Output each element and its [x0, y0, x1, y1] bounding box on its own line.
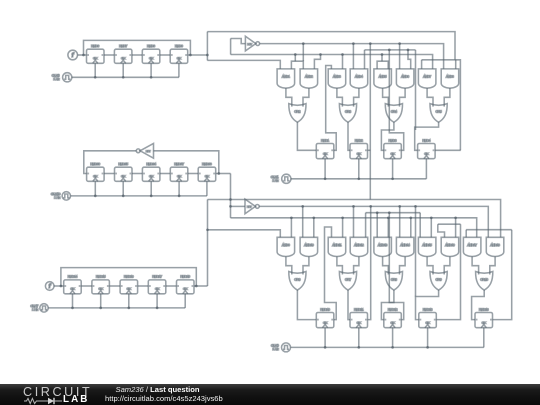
wire REG12 Q riser	[389, 213, 403, 320]
AND gate AND18	[486, 237, 504, 256]
AND gate AND2	[300, 69, 318, 88]
svg-text:REG35: REG35	[118, 162, 128, 166]
junction on B2	[352, 42, 355, 45]
wire REG1 Q up to AND3 left input	[326, 66, 337, 151]
wire clock stub chain D	[72, 294, 74, 308]
svg-text:AND6: AND6	[401, 75, 409, 79]
wire AND14 left input riser	[399, 206, 401, 237]
wire clock stub row 2	[324, 328, 326, 348]
flip-flop REG15	[92, 275, 110, 294]
wire chain-D link	[166, 285, 177, 287]
wire vertical at chain-A output	[206, 32, 208, 61]
wire clock stub chain D	[184, 294, 186, 308]
wire NOT2 input	[231, 205, 246, 207]
AND gate AND13	[374, 237, 392, 256]
wire CLK1 bus	[291, 178, 427, 180]
wire bus B4	[365, 49, 416, 51]
inverter NOT2	[245, 199, 259, 214]
wire OR8 output to REG12 D	[381, 290, 394, 320]
AND gate AND11	[328, 237, 346, 256]
OR gate OR5	[430, 104, 447, 123]
wire E-B2 into AND12 right input	[365, 213, 367, 238]
svg-text:AND7: AND7	[423, 75, 431, 79]
AND gate AND14	[396, 237, 414, 256]
wire chain-C link	[160, 173, 170, 175]
svg-text:REG38: REG38	[202, 162, 212, 166]
flip-flop REG6	[87, 44, 105, 63]
wire REG2 Q long vertical	[369, 44, 371, 200]
flip-flop REG35	[115, 162, 133, 181]
svg-text:REG17: REG17	[152, 275, 162, 279]
OR gate OR3	[339, 104, 356, 123]
junction REG11 Q on E-B1	[369, 205, 372, 208]
wire OR10 output to REG18 D	[472, 290, 485, 320]
svg-text:REG12: REG12	[388, 307, 398, 311]
wire long vertical to REG13 D jog	[415, 206, 417, 296]
svg-text:OR3: OR3	[345, 110, 351, 114]
junction clock bus	[94, 76, 97, 79]
wire AND1 output to OR2 input	[286, 88, 292, 107]
wire AND10 output to OR6	[303, 257, 309, 275]
wire probe to REG6 D input	[78, 54, 87, 56]
wire bus E-B5 to AND9 left input	[208, 230, 281, 238]
junction on E-B2	[376, 211, 379, 214]
AND gate AND16	[441, 237, 459, 256]
junction at REG6 D	[82, 54, 85, 57]
wire AND6 output to OR4 input	[400, 88, 406, 107]
AND gate AND15	[418, 237, 436, 256]
flip-flop REG18	[475, 307, 493, 327]
wire REG9 Q output node	[188, 54, 208, 56]
AND gate AND10	[300, 237, 318, 256]
wire AND12 left input riser	[353, 206, 355, 237]
wire REG11 Q riser	[368, 206, 371, 319]
junction CLK9 bus	[426, 346, 429, 349]
wire REG38 Q output	[216, 173, 231, 175]
wire NOT1 input loop vertical	[230, 39, 232, 55]
OR gate OR7	[339, 272, 356, 291]
flip-flop REG14	[64, 275, 81, 294]
wire AND10 left input riser	[302, 206, 304, 237]
wire OR2 output to REG1 D	[297, 122, 316, 150]
svg-text:REG3: REG3	[389, 138, 397, 142]
CircuitLab logo	[23, 385, 92, 399]
wire CLK7 bus	[48, 307, 185, 309]
svg-text:REG1: REG1	[321, 138, 329, 142]
junction on B4	[407, 49, 410, 52]
OR gate OR9	[430, 272, 447, 291]
wire AND14 output to OR8	[400, 257, 406, 275]
wire AND16 output to OR9	[444, 257, 450, 275]
wire CLK10 bus	[71, 195, 207, 197]
wire chain-C feedback to NOT13 input	[154, 151, 219, 174]
svg-text:AND10: AND10	[304, 243, 314, 247]
wire E-B4 into AND16 left input	[438, 224, 445, 237]
inverter NOT13	[136, 143, 153, 158]
wire clock stub chain D	[100, 294, 102, 308]
wire REG7 Q to REG8 D	[132, 54, 142, 56]
wire AND1.R - AND2.L inner segment	[291, 61, 303, 69]
clock source CLK8	[52, 73, 72, 82]
flip-flop REG17	[148, 275, 166, 294]
wire bus E-B3 to AND17 right input	[231, 218, 477, 238]
svg-text:AND18: AND18	[490, 243, 500, 247]
flip-flop REG37	[170, 162, 188, 181]
svg-text:OR2: OR2	[294, 110, 300, 114]
svg-text:REG8: REG8	[147, 44, 155, 48]
wire REG4 Q stub	[435, 149, 461, 151]
junction on E-B1	[301, 205, 304, 208]
svg-text:OR6: OR6	[294, 278, 300, 282]
wire REG13 Q riser	[436, 224, 460, 319]
svg-text:AND8: AND8	[446, 75, 454, 79]
flip-flop REG1	[316, 138, 334, 158]
svg-text:AND11: AND11	[332, 243, 341, 247]
svg-text:AND16: AND16	[445, 243, 455, 247]
junction on B3	[294, 53, 297, 56]
flip-flop REG11	[350, 307, 368, 327]
wire AND2 output to OR2 input	[303, 88, 309, 107]
OR gate OR10	[476, 272, 493, 291]
svg-text:NOT: NOT	[247, 44, 252, 46]
flip-flop REG2	[350, 138, 368, 158]
wire REG18 Q riser	[493, 230, 512, 320]
wire clock stub chain C	[206, 181, 208, 196]
junction on E-B3	[409, 216, 412, 219]
wire CLK8 bus	[72, 76, 179, 78]
junction CLK7 bus	[71, 307, 74, 310]
junction CLK10 bus	[94, 195, 97, 198]
wire AND17 output to OR10	[472, 257, 479, 275]
junction on E-B0	[229, 198, 232, 201]
svg-text:REG4: REG4	[422, 138, 430, 142]
wire NOT1 input	[231, 39, 246, 44]
wire B4 drop toward REG4	[415, 50, 417, 130]
wire AND7 left input riser	[421, 60, 423, 69]
svg-text:OR5: OR5	[436, 110, 442, 114]
wire AND12 output to OR7	[354, 257, 359, 275]
wire AND9 output to OR6	[286, 257, 292, 275]
wire clock stub REG6	[94, 63, 96, 77]
junction CLK1 bus	[324, 177, 327, 180]
svg-text:REG14: REG14	[68, 275, 78, 279]
svg-text:AND15: AND15	[422, 243, 432, 247]
junction on B2	[398, 42, 401, 45]
wire clock stub chain C	[150, 181, 152, 196]
wire clock stub REG4	[425, 159, 427, 179]
svg-text:f: f	[49, 283, 52, 290]
clock source CLK7	[30, 304, 48, 312]
wire E-B6 into AND17 left input	[465, 230, 467, 238]
wire OR9 output to REG13 D	[416, 290, 439, 320]
svg-text:NOT: NOT	[146, 151, 151, 153]
wire AND11 output to OR7	[337, 257, 343, 275]
wire clock stub row 2	[427, 328, 429, 348]
wire bus B2 (NOT1 output) to AND8 left input	[260, 44, 444, 69]
svg-text:AND13: AND13	[378, 243, 388, 247]
wire chain-D link	[109, 285, 120, 287]
wire OR5 output to REG4 D	[415, 122, 439, 150]
svg-text:1 Hz: 1 Hz	[32, 308, 39, 312]
junction on B2	[302, 42, 305, 45]
wire into AND8 right input	[455, 60, 457, 69]
wire clock stub row 2	[483, 328, 485, 348]
svg-text:REG37: REG37	[174, 162, 184, 166]
AND gate AND9	[277, 237, 295, 256]
wire chain-C link	[104, 173, 114, 175]
wire clock stub chain C	[122, 181, 124, 196]
svg-text:AND2: AND2	[305, 75, 313, 79]
AND gate AND7	[418, 69, 436, 88]
junction on B3	[381, 53, 384, 56]
wire chain-A feedback loop	[84, 40, 191, 55]
svg-text:REG36: REG36	[91, 162, 101, 166]
svg-text:REG16: REG16	[124, 275, 134, 279]
svg-text:REG13: REG13	[423, 307, 433, 311]
svg-text:REG19: REG19	[180, 275, 190, 279]
junction on E-B1	[398, 205, 401, 208]
wire REG38 Q down to bottom section	[230, 174, 232, 218]
svg-text:OR10: OR10	[480, 278, 488, 282]
junction CLK10 bus	[122, 195, 125, 198]
OR gate OR4	[385, 104, 402, 123]
svg-text:REG10: REG10	[320, 307, 330, 311]
wire CLK9 bus	[291, 346, 484, 348]
wire bus E-B4	[438, 223, 461, 225]
wire chain-D link	[138, 285, 149, 287]
logo diode symbol	[39, 400, 48, 402]
clock source CLK10	[51, 192, 71, 200]
inverter NOT1	[245, 36, 259, 51]
junction on E-B3	[290, 216, 293, 219]
wire AND2 right input tap	[314, 55, 320, 69]
wire chain-A output to AND1 left input	[207, 60, 280, 69]
wire AND7 output to OR5 input	[427, 88, 433, 107]
svg-text:AND1: AND1	[282, 75, 290, 79]
wire OR7 output to REG11 D	[348, 290, 350, 320]
svg-text:OR8: OR8	[391, 278, 397, 282]
wire REG3 Q up to B4	[389, 50, 403, 150]
svg-text:OR4: OR4	[391, 110, 397, 114]
svg-text:REG15: REG15	[96, 275, 106, 279]
wire chain-C link	[132, 173, 142, 175]
wire AND13 left input riser	[376, 213, 378, 238]
junction on E-B3	[430, 216, 433, 219]
wire REG19 Q output	[194, 285, 208, 287]
wire clock stub chain C	[178, 181, 180, 196]
wire OR3 output to REG2 D	[348, 122, 350, 150]
junction on B3	[319, 53, 322, 56]
junction CLK10 bus	[178, 195, 181, 198]
junction REG2 Q on B2	[369, 42, 372, 45]
flip-flop REG36	[87, 162, 105, 181]
wire AND9 right input riser	[290, 218, 292, 238]
flip-flop REG8	[142, 44, 160, 63]
wire AND13 right input riser	[387, 218, 389, 238]
wire riser pair3 to B3	[381, 55, 383, 62]
wire AND4 output to OR3 input	[354, 88, 359, 107]
wire clock stub chain D	[128, 294, 130, 308]
junction CLK9 bus	[357, 346, 360, 349]
wire AND10 right input riser	[313, 218, 315, 238]
svg-text:NOT: NOT	[247, 207, 252, 209]
AND gate AND5	[374, 69, 392, 88]
svg-text:REG2: REG2	[355, 138, 363, 142]
junction REG12 Q on E-B2	[388, 211, 391, 214]
AND gate AND8	[441, 69, 459, 88]
flip-flop REG16	[120, 275, 138, 294]
wire clock stub chain D	[156, 294, 158, 308]
wire riser pair1 to B3	[294, 55, 296, 62]
wire bus E-B1 (NOT2 output) to AND18 left input	[259, 206, 488, 237]
OR gate OR2	[289, 104, 306, 123]
junction on E-B3	[387, 216, 390, 219]
wire chain-D feedback loop	[61, 268, 196, 286]
wire AND3 right input riser	[342, 55, 344, 69]
wire AND5 inner segment	[377, 61, 388, 69]
wire clock stub REG3	[392, 159, 394, 179]
svg-text:AND9: AND9	[282, 243, 290, 247]
wire REG10 Q up to AND11 left input	[325, 227, 337, 320]
wire bus E-B2	[366, 212, 421, 214]
wire AND4 left input riser to B2	[352, 44, 354, 69]
junction REG3 Q on B4	[388, 49, 391, 52]
wire AND15 output to OR9	[427, 257, 433, 275]
junction on E-B3	[312, 216, 315, 219]
junction CLK7 bus	[127, 307, 130, 310]
wire clock stub REG8	[150, 63, 152, 77]
svg-text:AND14: AND14	[400, 243, 410, 247]
wire clock stub row 2	[392, 328, 394, 348]
svg-text:AND4: AND4	[355, 75, 363, 79]
probe PRB1	[68, 50, 78, 60]
flip-flop REG19	[177, 275, 195, 294]
junction CLK9 bus	[324, 346, 327, 349]
flip-flop REG12	[384, 307, 402, 327]
wire REG2 Q stub	[368, 149, 371, 151]
svg-text:AND3: AND3	[333, 75, 341, 79]
wire AND13 output to OR8	[383, 257, 389, 275]
svg-text:1 Hz: 1 Hz	[273, 347, 280, 351]
svg-text:REG6: REG6	[91, 44, 99, 48]
junction E-B5 tap	[206, 228, 209, 231]
wire level segment to REG4 Q	[422, 60, 461, 151]
wire bus B3 into AND7 right input	[231, 55, 433, 69]
wire AND18 output to OR10	[490, 257, 495, 275]
wire AND2 left riser to B2	[302, 44, 304, 62]
wire chain-D link	[81, 285, 92, 287]
flip-flop REG10	[316, 307, 334, 327]
wire bus E-B0 to AND18 right input	[208, 200, 501, 238]
wire AND6 left input riser to B2	[399, 44, 401, 69]
wire AND15 right input riser	[430, 218, 432, 238]
junction on E-B3	[454, 216, 457, 219]
wire OR4 output to REG3 D	[381, 122, 394, 150]
wire AND14 right input riser	[410, 218, 412, 238]
wire top bus B1	[207, 32, 455, 60]
junction on B3	[341, 53, 344, 56]
junction clock bus	[122, 76, 125, 79]
junction chain-A feedback tap	[189, 54, 192, 57]
junction CLK1 bus	[357, 177, 360, 180]
wire clock stub REG9	[178, 63, 180, 77]
wire clock stub REG1	[324, 159, 326, 179]
junction CLK10 bus	[150, 195, 153, 198]
wire chain-C link	[188, 173, 198, 175]
svg-text:OR7: OR7	[345, 278, 351, 282]
junction clock bus	[150, 76, 153, 79]
wire B4 into AND4 right input	[364, 50, 366, 69]
wire AND11 right input riser	[342, 218, 344, 238]
flip-flop REG7	[114, 44, 131, 63]
svg-text:OR9: OR9	[436, 278, 442, 282]
junction CLK1 bus	[391, 177, 394, 180]
wire left edge vertical to chain-D output	[207, 200, 209, 287]
junction chain-C feedback tap	[217, 172, 220, 175]
wire clock stub REG2	[358, 159, 360, 179]
AND gate AND3	[328, 69, 346, 88]
flip-flop REG4	[418, 138, 436, 158]
wire clock stub chain C	[94, 181, 96, 196]
wire NOT13 output to REG36 D	[84, 151, 137, 174]
wire REG6 Q to REG7 D	[104, 54, 114, 56]
svg-text:REG7: REG7	[119, 44, 127, 48]
junction chain-A output node	[206, 54, 209, 57]
wire E-B2 into AND15 left input	[419, 213, 421, 238]
svg-text:REG9: REG9	[175, 44, 183, 48]
AND gate AND17	[463, 237, 481, 256]
svg-text:REG11: REG11	[354, 307, 364, 311]
svg-text:REG34: REG34	[146, 162, 156, 166]
wire AND8 output to OR5 input	[444, 88, 450, 107]
junction on E-B1	[352, 205, 355, 208]
junction CLK7 bus	[156, 307, 159, 310]
AND gate AND4	[350, 69, 368, 88]
flip-flop REG38	[198, 162, 216, 181]
AND gate AND12	[350, 237, 368, 256]
wire clock stub REG7	[122, 63, 124, 77]
flip-flop REG34	[142, 162, 160, 181]
junction on E-B1	[414, 205, 417, 208]
junction at REG14 D	[60, 285, 63, 288]
probe PRB2	[45, 282, 54, 291]
junction CLK9 bus	[391, 346, 394, 349]
clock source CLK1	[271, 174, 291, 183]
wire clock stub row 2	[358, 328, 360, 348]
flip-flop REG9	[170, 44, 188, 63]
OR gate OR6	[289, 272, 306, 291]
flip-flop REG13	[419, 307, 437, 327]
wire REG8 Q to REG9 D	[160, 54, 170, 56]
svg-text:f: f	[72, 52, 75, 59]
AND gate AND1	[277, 69, 295, 88]
svg-text:AND12: AND12	[354, 243, 364, 247]
junction chain-D feedback tap	[195, 285, 198, 288]
wire probe to REG14 D	[54, 285, 64, 287]
clock source CLK9	[271, 343, 291, 352]
flip-flop REG3	[384, 138, 402, 158]
wire AND5 output to OR4 input	[383, 88, 389, 107]
wire AND3 output to OR3 input	[337, 88, 343, 107]
svg-text:1 Hz: 1 Hz	[272, 179, 279, 183]
AND gate AND6	[396, 69, 414, 88]
junction NOT2 input tap	[229, 205, 232, 208]
wire AND16 right input riser	[455, 218, 457, 238]
logo resistor symbol	[24, 398, 39, 403]
junction on E-B3	[341, 216, 344, 219]
svg-text:AND17: AND17	[467, 243, 477, 247]
svg-text:AND5: AND5	[379, 75, 387, 79]
